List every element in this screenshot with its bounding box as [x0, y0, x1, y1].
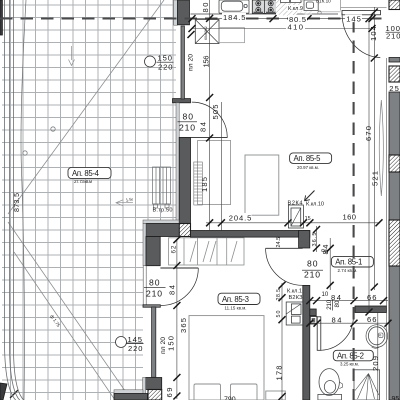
door handle symbol near hall label: [322, 249, 328, 252]
insulation above terrace bottom wall: [114, 390, 143, 394]
svg-text:80: 80: [307, 258, 318, 268]
bedroom door arc: [266, 248, 303, 285]
ticks on y323.2: [306, 320, 391, 327]
K.kl.9 hatched shaft zone: [276, 0, 303, 17]
bedroom door leaf: [266, 247, 303, 249]
dim vline bedroom right x282: [281, 283, 283, 400]
window labels with circles: [116, 54, 174, 353]
bathroom top wall / hall bottom wall: [355, 306, 387, 313]
svg-text:84: 84: [332, 315, 342, 324]
svg-text:Ап. 85-5: Ап. 85-5: [294, 154, 322, 163]
nightstand: [266, 391, 286, 400]
windows and doors: [152, 0, 387, 377]
ticks on x176.9: [173, 236, 180, 399]
svg-text:80: 80: [201, 3, 210, 13]
svg-text:пл 20: пл 20: [160, 337, 167, 354]
dim vline right x369: [368, 19, 370, 312]
svg-text:62: 62: [170, 245, 177, 253]
window living room (150/220): [181, 26, 184, 99]
bathroom door leaf: [317, 317, 321, 351]
svg-text:В.тр.50: В.тр.50: [153, 208, 173, 214]
outer face line across balcony door: [143, 266, 146, 306]
entry door arc: [342, 13, 380, 58]
white backings: [222, 13, 362, 221]
entry door leaf top right: [342, 11, 381, 15]
living window 150/220: [145, 56, 156, 67]
insulation strip top-left wall: [174, 0, 178, 25]
vertical dashed line: [353, 20, 355, 400]
pillow 2: [231, 384, 258, 400]
ticks on y300.6: [306, 297, 387, 304]
living/hall bottom wall (right part): [191, 231, 310, 238]
window bedroom (145/220): [152, 307, 156, 377]
svg-text:пл 20: пл 20: [188, 54, 195, 71]
dim vline bath x377.8 (209): [377, 313, 379, 400]
ticks on y18.5 line: [189, 15, 376, 22]
svg-text:150: 150: [167, 336, 176, 351]
dark corner piece bottom-left: [0, 383, 7, 400]
wardrobe bedroom: [169, 238, 245, 265]
svg-text:160: 160: [343, 212, 357, 221]
wash basin: [366, 325, 388, 349]
fridge X-box: [195, 20, 219, 44]
svg-text:145: 145: [346, 15, 361, 24]
80/210 hall entry door: [302, 258, 323, 279]
svg-text:95: 95: [392, 396, 400, 400]
wall block terrace/living top: [178, 0, 190, 25]
dim hline bath y323: [310, 322, 388, 324]
wall cap above living door: [173, 99, 191, 103]
svg-text:150: 150: [158, 54, 173, 63]
svg-text:К.кл.1: К.кл.1: [287, 288, 302, 294]
dim vline bedroom left x176.9: [176, 239, 178, 399]
dim hline hallway y300.6: [310, 300, 388, 302]
svg-text:220: 220: [158, 63, 173, 72]
bedroom window sill cap top: [143, 305, 160, 307]
slope diagonal to bottom 2: [14, 252, 115, 400]
svg-text:104: 104: [369, 26, 378, 41]
ticks on x369: [366, 15, 373, 315]
tick on rail bottom: [10, 390, 18, 398]
svg-text:178: 178: [275, 366, 284, 381]
insulation above bedroom top wall: [143, 220, 179, 224]
svg-text:790: 790: [224, 397, 236, 400]
svg-text:84: 84: [168, 285, 177, 295]
two small boxes at top edge: [281, 0, 290, 3]
svg-text:521: 521: [371, 171, 380, 186]
entry door threshold lines: [341, 0, 387, 11]
dim vline x221.5: [221, 102, 223, 231]
bedroom top wall left part: [146, 224, 179, 237]
insulation left of lower block: [143, 378, 146, 396]
svg-text:365: 365: [179, 318, 188, 333]
svg-text:145: 145: [128, 335, 143, 344]
ridge diagonal: [8, 0, 164, 214]
svg-text:84: 84: [321, 245, 330, 255]
bathroom door arc: [321, 318, 354, 351]
terrace bottom wall: [114, 394, 148, 400]
ticks on x316.5: [313, 226, 320, 252]
dim vline right x374.3: [373, 7, 375, 290]
dim vline x330.2 (84): [329, 238, 331, 290]
svg-text:Ап. 85-1: Ап. 85-1: [335, 258, 362, 267]
Ap 85-3 bedroom: [218, 293, 260, 310]
fixtures: [153, 0, 388, 400]
svg-text:20.97 кв.м.: 20.97 кв.м.: [297, 165, 319, 170]
svg-text:184.5: 184.5: [223, 13, 246, 22]
svg-text:80: 80: [183, 112, 194, 122]
right wall: inner face line: [386, 58, 388, 400]
marker circle on diagonal: [51, 127, 55, 131]
svg-text:В1К.10: В1К.10: [316, 0, 331, 4]
wall terrace/living (hinge side): [179, 137, 190, 223]
svg-text:210: 210: [304, 270, 320, 280]
door frame block below stub: [310, 317, 317, 325]
door bedroom balcony leaf: [160, 267, 198, 269]
ticks on x330.2: [327, 245, 334, 289]
svg-text:80: 80: [334, 300, 341, 308]
shower: [354, 370, 380, 400]
hall/bedroom right wall top stub: [299, 231, 310, 249]
Ap 85-1 hallway: [331, 256, 373, 273]
toilet: [318, 369, 343, 400]
dim line top y18.5: [190, 18, 373, 20]
tick marks: [173, 9, 391, 400]
slope diagonal to bottom 1: [8, 222, 130, 398]
tick near window living: [188, 31, 195, 38]
svg-text:69: 69: [165, 388, 174, 398]
Ap 85-4 terrace: [68, 167, 111, 184]
door size labels: [144, 112, 341, 311]
svg-text:210: 210: [179, 122, 195, 132]
svg-text:80: 80: [149, 277, 160, 287]
bedroom window 145/220: [116, 337, 127, 348]
terrace tile grid: [2, 0, 176, 400]
svg-text:Ап. 85-3: Ап. 85-3: [222, 295, 249, 304]
Ap 85-2 bathroom: [333, 350, 373, 366]
sofa living room: [245, 155, 279, 215]
svg-text:210: 210: [326, 299, 333, 310]
terrace diagonals and marks: [8, 0, 164, 400]
ticks on x374.3: [371, 9, 378, 291]
ticks on y222.8 line: [206, 219, 382, 226]
80/210 bedroom balcony door: [144, 277, 166, 298]
80/210 living door: [178, 112, 198, 133]
svg-text:36.5: 36.5: [312, 233, 318, 247]
dim wavy line 873.5: [21, 0, 26, 400]
shaft boxes K.kl.1/B2K3 bedroom: [286, 302, 303, 325]
svg-text:10: 10: [322, 292, 329, 298]
svg-text:К.кл.10: К.кл.10: [306, 201, 324, 207]
svg-text:66: 66: [367, 315, 377, 324]
pillow 1: [194, 384, 221, 400]
stove 4 burners: [252, 0, 276, 13]
svg-text:50: 50: [276, 311, 282, 318]
radiator ladder living side: [194, 162, 203, 205]
svg-text:66: 66: [367, 293, 377, 302]
svg-text:25: 25: [389, 84, 399, 93]
svg-text:505: 505: [211, 105, 220, 120]
80/210 bathroom door rotated: [326, 299, 341, 310]
svg-text:873.5: 873.5: [14, 193, 21, 212]
svg-text:210: 210: [146, 289, 162, 299]
hatch column bottom left of bedroom: [148, 390, 162, 400]
svg-text:156: 156: [202, 56, 211, 68]
bedroom left wall upper: [146, 237, 160, 266]
svg-text:670: 670: [364, 126, 373, 141]
horizontal overhang dashed line: [0, 17, 386, 19]
terrace left edge rails: [5, 0, 29, 400]
kitchen counter edge: [191, 13, 339, 15]
svg-text:209: 209: [371, 356, 380, 371]
svg-text:3.25 кв.м.: 3.25 кв.м.: [340, 361, 359, 366]
ventilation shaft B2K4 living: [288, 205, 303, 228]
dark corner piece top-left: [0, 0, 2, 35]
svg-text:11.15 кв.м.: 11.15 кв.м.: [225, 306, 247, 311]
table living room: [198, 141, 231, 205]
svg-text:185: 185: [200, 177, 209, 192]
bathroom wall stub protrusion: [310, 309, 316, 316]
svg-text:К.кл.9: К.кл.9: [288, 6, 303, 12]
right wall hatch columns: [389, 0, 400, 10]
svg-text:27.73 кв.м: 27.73 кв.м: [74, 179, 92, 184]
bedroom left wall lower block: [146, 378, 162, 390]
washing machine: [304, 0, 318, 11]
slope arrow top: [69, 46, 75, 66]
counter return rect: [219, 28, 245, 43]
door bedroom balcony arc: [161, 268, 199, 306]
ticks on y28.3 line: [189, 25, 376, 32]
svg-text:В2К4: В2К4: [288, 201, 303, 207]
dim line top y28.3: [192, 28, 372, 30]
insulation strip beside living wall: [176, 103, 179, 224]
door terrace-living leaf: [191, 137, 228, 139]
bed: [189, 316, 264, 400]
dim vline x209.6: [209, 0, 211, 231]
entrance arrow near B2K4: [305, 191, 315, 201]
door terrace-living arc: [192, 102, 228, 138]
svg-text:24.5: 24.5: [276, 237, 282, 248]
svg-text:220: 220: [128, 344, 143, 353]
ticks on x209.6: [206, 15, 213, 142]
small annotation texts: [153, 0, 332, 301]
dim line mid y222.8: [206, 222, 380, 224]
ticks on x282: [279, 282, 286, 400]
svg-text:Ап. 85-4: Ап. 85-4: [72, 169, 100, 178]
svg-text:28.5: 28.5: [276, 289, 282, 301]
slope arrow mid-left: [116, 196, 134, 205]
apartment labels: [68, 153, 373, 367]
svg-text:15: 15: [305, 216, 311, 222]
Ap 85-5 living: [290, 153, 332, 170]
dim vline x316.5 (36.5): [316, 226, 318, 252]
svg-text:Ап. 85-2: Ап. 85-2: [337, 352, 364, 361]
svg-text:84: 84: [199, 122, 208, 132]
window lens right wall: [379, 100, 383, 196]
bathroom left wall: [303, 285, 310, 400]
svg-text:В2КЗ: В2КЗ: [289, 295, 304, 301]
column hatch at wall junction: [179, 224, 190, 237]
svg-text:210: 210: [386, 32, 400, 41]
vertical pipes box terrace side: [153, 167, 171, 208]
right wall grey segments: [389, 58, 400, 63]
svg-text:410: 410: [288, 22, 304, 31]
svg-text:204.5: 204.5: [229, 213, 252, 222]
kitchen sink: [219, 0, 249, 13]
insulation left of bedroom wall: [143, 224, 146, 266]
